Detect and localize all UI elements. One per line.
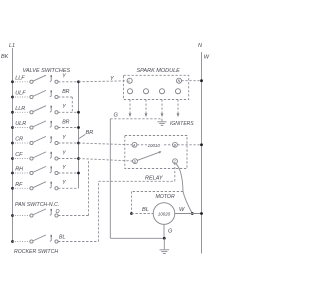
svg-text:N: N — [198, 43, 202, 49]
svg-text:RF: RF — [15, 182, 23, 188]
svg-text:Y: Y — [62, 74, 66, 80]
svg-text:CF: CF — [15, 152, 23, 158]
svg-text:ULR: ULR — [15, 121, 26, 127]
svg-text:BL: BL — [59, 235, 65, 241]
svg-text:IGNITERS: IGNITERS — [170, 121, 194, 127]
svg-text:LLR: LLR — [15, 106, 25, 112]
svg-text:Y: Y — [62, 180, 66, 186]
svg-text:G: G — [114, 113, 119, 119]
svg-text:Y: Y — [62, 165, 66, 171]
svg-text:RH: RH — [15, 167, 23, 173]
svg-text:10010: 10010 — [148, 143, 161, 148]
svg-text:L1: L1 — [9, 43, 15, 49]
svg-text:W: W — [204, 55, 210, 61]
svg-text:MOTOR: MOTOR — [156, 194, 175, 200]
svg-text:BR: BR — [62, 89, 69, 95]
svg-text:LLF: LLF — [15, 76, 25, 82]
svg-text:BR: BR — [62, 119, 69, 125]
svg-text:BL: BL — [142, 207, 149, 213]
svg-text:W: W — [179, 207, 185, 213]
svg-text:O: O — [56, 209, 60, 215]
svg-text:BR: BR — [86, 130, 94, 136]
svg-text:Y: Y — [62, 150, 66, 156]
svg-text:G: G — [168, 229, 173, 235]
svg-text:Y: Y — [62, 135, 66, 141]
svg-text:SPARK MODULE: SPARK MODULE — [137, 68, 181, 74]
svg-text:10020: 10020 — [158, 212, 171, 217]
svg-text:ROCKER SWITCH: ROCKER SWITCH — [14, 249, 58, 255]
svg-text:PAN SWITCH-N.C.: PAN SWITCH-N.C. — [15, 202, 59, 208]
svg-text:L: L — [129, 79, 131, 83]
svg-text:CR: CR — [15, 137, 23, 143]
svg-text:Y: Y — [62, 104, 66, 110]
svg-text:RELAY: RELAY — [145, 175, 163, 181]
svg-text:ULF: ULF — [15, 91, 26, 97]
svg-text:BK: BK — [1, 54, 9, 60]
